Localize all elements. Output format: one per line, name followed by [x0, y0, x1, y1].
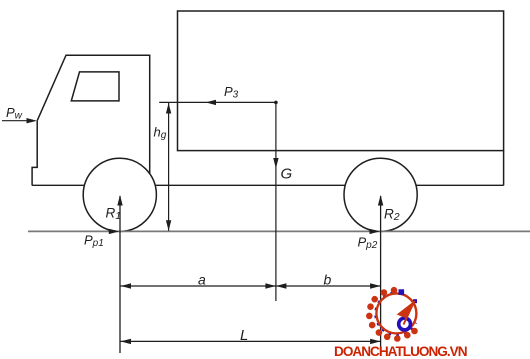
svg-text:Pp2: Pp2 — [358, 235, 378, 252]
force arrow Pw — [2, 120, 29, 122]
dimension line L — [121, 340, 381, 342]
cab outline — [37, 55, 150, 178]
svg-text:L: L — [240, 327, 248, 344]
traction arrow Pp1 head — [109, 229, 120, 234]
cab window — [71, 72, 119, 101]
logo blue tip dot — [413, 299, 417, 303]
logo blue top square — [399, 289, 405, 295]
cab front and bumper — [32, 121, 37, 186]
chassis bottom line — [32, 184, 504, 186]
dimension line a and b — [121, 285, 381, 287]
line through centre of gravity (hg level) — [159, 101, 276, 103]
ground line — [28, 230, 530, 232]
node centre of gravity — [274, 101, 278, 105]
front wheel — [83, 158, 156, 231]
logo gear ring — [366, 287, 418, 342]
logo small dial — [399, 318, 411, 330]
svg-text:G: G — [281, 166, 293, 183]
force arrow G head — [273, 158, 278, 169]
logo needle — [397, 301, 415, 319]
logo blue dashed circle — [375, 293, 415, 335]
reaction arrow R2 — [380, 196, 382, 351]
rear wheel — [344, 158, 417, 231]
svg-text:Pp1: Pp1 — [84, 233, 104, 250]
svg-text:Pw: Pw — [6, 105, 23, 122]
svg-text:b: b — [324, 272, 332, 288]
svg-text:P3: P3 — [224, 84, 239, 101]
svg-text:hg: hg — [154, 125, 167, 142]
force arrow P3 head — [206, 100, 217, 105]
cargo box body — [178, 11, 504, 151]
reaction arrow R1 — [119, 196, 121, 353]
chassis right side below box — [503, 151, 505, 186]
svg-text:a: a — [198, 272, 206, 288]
centre of gravity vertical line — [275, 102, 277, 301]
traction arrow Pp2 head — [370, 229, 381, 234]
svg-text:DOANCHATLUONG.VN: DOANCHATLUONG.VN — [334, 344, 467, 359]
dimension hg — [168, 103, 170, 231]
